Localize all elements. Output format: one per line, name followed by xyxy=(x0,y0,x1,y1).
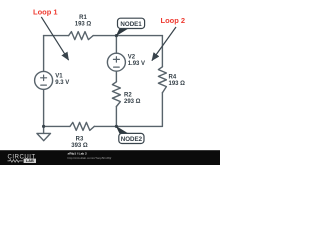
svg-text:xRfp1 / Lab 2: xRfp1 / Lab 2 xyxy=(68,152,88,156)
V2 minus sign xyxy=(114,66,120,68)
svg-text:R2: R2 xyxy=(124,92,132,98)
node NODE1 callout pointer xyxy=(116,28,129,36)
junction dot node2 xyxy=(115,125,118,128)
svg-text:Loop 1: Loop 1 xyxy=(33,8,58,17)
footer bar xyxy=(0,150,220,165)
wire node1 junction to top-right corner xyxy=(116,35,162,37)
svg-text:393 Ω: 393 Ω xyxy=(71,143,88,149)
svg-text:1.93 V: 1.93 V xyxy=(128,61,145,67)
junction dot node1 xyxy=(115,34,118,37)
svg-text:V2: V2 xyxy=(128,55,136,61)
wire V2 to R2 xyxy=(115,71,117,82)
footer logo LAB box xyxy=(24,159,36,163)
resistor R2 xyxy=(112,82,120,107)
wire R3 to node2 junction xyxy=(94,125,116,127)
svg-text:Loop 2: Loop 2 xyxy=(161,16,186,25)
svg-text:193 Ω: 193 Ω xyxy=(169,81,186,87)
resistor R1 xyxy=(69,32,94,40)
wire R2 to node2 junction xyxy=(115,107,117,127)
svg-text:NODE1: NODE1 xyxy=(120,21,142,28)
svg-text:9.3 V: 9.3 V xyxy=(55,80,69,86)
wire node2 junction to bottom-right corner xyxy=(116,125,162,127)
wire bottom-left to R3 xyxy=(44,125,70,127)
wire top-left to R1 xyxy=(44,35,69,37)
svg-text:V1: V1 xyxy=(55,74,63,80)
resistor R4 xyxy=(158,67,166,93)
node NODE2 callout pointer xyxy=(116,126,129,134)
wire R1 to node1 junction xyxy=(93,35,116,37)
wire right vertical top (corner to R4) xyxy=(161,36,163,67)
wire R4 to bottom-right corner xyxy=(161,93,163,127)
svg-text:NODE2: NODE2 xyxy=(121,136,143,143)
wire left vertical top (corner to V1) xyxy=(43,36,45,72)
node NODE1 callout box xyxy=(118,18,145,28)
V1 minus sign xyxy=(41,84,47,86)
V1 plus sign xyxy=(41,75,47,80)
footer logo resistor zigzag xyxy=(8,160,23,163)
voltage source V1 circle xyxy=(35,71,53,89)
svg-text:193 Ω: 193 Ω xyxy=(75,22,92,28)
svg-text:293 Ω: 293 Ω xyxy=(124,99,141,105)
ground triangle xyxy=(37,133,51,140)
svg-text:R1: R1 xyxy=(79,15,87,21)
svg-text:R4: R4 xyxy=(169,75,177,81)
svg-text:LAB: LAB xyxy=(26,159,34,163)
wire middle branch top (node1 to V2) xyxy=(115,36,117,54)
node NODE2 callout box xyxy=(119,133,144,143)
loop 1 arrow xyxy=(41,17,68,60)
wire V1 to ground junction xyxy=(43,89,45,126)
ground stub xyxy=(43,126,45,133)
loop 2 arrow xyxy=(152,27,176,61)
voltage source V2 circle xyxy=(107,53,125,71)
V2 plus sign xyxy=(113,57,119,62)
resistor R3 xyxy=(70,122,94,130)
svg-text:http://circuitlab.com/c/7anp5f: http://circuitlab.com/c/7anp5fmb5jr xyxy=(68,156,112,160)
svg-text:R3: R3 xyxy=(76,136,84,142)
junction dot bottom-left xyxy=(42,125,45,128)
